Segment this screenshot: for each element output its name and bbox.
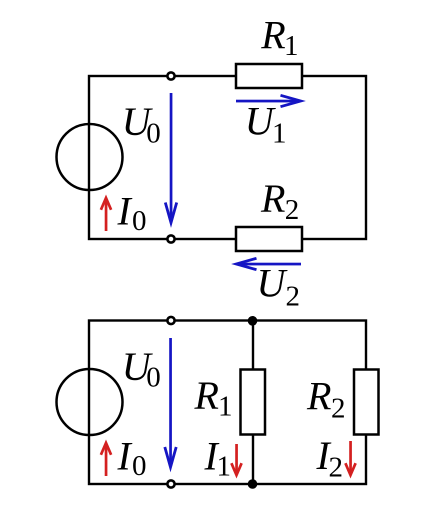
- label U2: [257, 261, 301, 313]
- label I1: [204, 433, 232, 482]
- node terminal bottom (open circle): [167, 235, 174, 242]
- label I0: [117, 189, 147, 238]
- wire middle branch: [252, 321, 254, 485]
- wire top-circuit outer loop: [89, 76, 366, 239]
- current arrow I0 (red, up): [101, 198, 111, 231]
- voltage source U0 (circle): [57, 124, 123, 190]
- svg-text:1: 1: [272, 117, 287, 149]
- svg-text:2: 2: [331, 393, 346, 425]
- svg-text:1: 1: [284, 30, 299, 62]
- current arrow I1 (red, down): [231, 444, 241, 475]
- junction dot top: [248, 316, 258, 326]
- svg-text:2: 2: [286, 281, 301, 313]
- voltage arrow U0 (blue, down): [165, 338, 176, 467]
- svg-text:R: R: [260, 13, 285, 58]
- svg-text:0: 0: [146, 362, 161, 394]
- svg-text:R: R: [194, 373, 219, 418]
- current arrow I2 (red, down): [345, 441, 355, 475]
- label I0: [117, 433, 147, 482]
- label R2: [260, 176, 299, 226]
- label I2: [316, 433, 344, 484]
- voltage arrow U2 (blue, left): [236, 258, 301, 269]
- wire bottom-circuit outer loop: [89, 321, 366, 485]
- svg-text:I: I: [117, 433, 133, 478]
- label R1: [260, 13, 298, 62]
- node terminal bottom (open circle): [167, 480, 174, 487]
- label R1: [194, 373, 233, 423]
- resistor R2 (vertical): [354, 370, 379, 435]
- svg-text:1: 1: [218, 391, 233, 423]
- svg-text:2: 2: [285, 194, 300, 226]
- label U1: [245, 99, 287, 150]
- svg-text:0: 0: [146, 118, 161, 150]
- voltage arrow U0 (blue, down): [165, 93, 176, 223]
- voltage arrow U1 (blue, right): [236, 95, 301, 106]
- label R2: [306, 373, 346, 424]
- svg-text:0: 0: [132, 205, 147, 237]
- svg-text:1: 1: [217, 451, 232, 483]
- current arrow I0 (red, up): [101, 443, 111, 476]
- node terminal top (open circle): [167, 317, 174, 324]
- label U0: [122, 99, 161, 150]
- svg-text:2: 2: [329, 452, 344, 484]
- resistor R1 (top, horizontal): [236, 64, 302, 88]
- resistor R2 (bottom, horizontal): [236, 227, 302, 251]
- node terminal top (open circle): [167, 72, 174, 79]
- resistor R1 (vertical): [241, 370, 266, 435]
- svg-text:I: I: [117, 189, 133, 234]
- svg-text:U: U: [257, 261, 289, 306]
- junction dot bottom: [248, 479, 258, 489]
- voltage source U0 (circle): [57, 369, 123, 435]
- svg-text:0: 0: [132, 450, 147, 482]
- svg-text:R: R: [306, 373, 331, 418]
- svg-text:R: R: [260, 176, 285, 221]
- label U0: [122, 344, 161, 394]
